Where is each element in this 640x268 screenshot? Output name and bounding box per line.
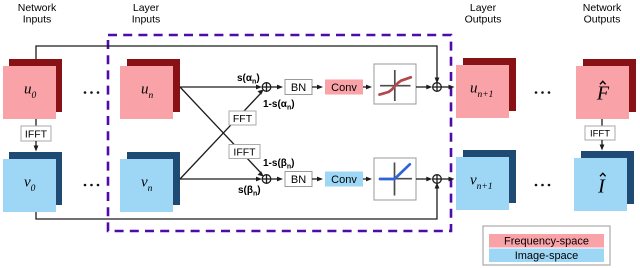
svg-text:s(αn): s(αn) xyxy=(237,73,260,86)
input stack v0 xyxy=(3,152,62,212)
wire u0 to IFFT xyxy=(35,119,37,126)
output stack u_{n+1} xyxy=(456,58,516,118)
svg-text:Conv: Conv xyxy=(331,174,357,186)
IFFT box left xyxy=(21,126,51,141)
activation box bottom xyxy=(374,158,416,200)
wire F hat to IFFT right xyxy=(601,119,603,126)
svg-text:BN: BN xyxy=(291,174,306,186)
input stack vn xyxy=(120,152,180,212)
label s(alpha_n) xyxy=(237,73,260,86)
arrow IFFT to v0 xyxy=(34,141,39,152)
input stack u0 xyxy=(3,59,62,119)
adder A2 xyxy=(262,175,271,184)
svg-text:IFFT: IFFT xyxy=(590,129,610,140)
header: Network Outputs xyxy=(583,2,622,26)
header: Network Inputs xyxy=(18,2,57,26)
layer boundary dashed box xyxy=(108,35,451,231)
legend box xyxy=(483,226,610,265)
arrow A1 to BN1 xyxy=(271,85,283,90)
BN box top xyxy=(285,80,312,95)
svg-text:Network: Network xyxy=(583,2,622,14)
wire vn diagonal through FFT to adder A1 xyxy=(180,90,264,180)
header: Layer Outputs xyxy=(465,2,502,26)
legend image-space swatch xyxy=(489,249,604,263)
arrow A3 to u_{n+1} xyxy=(441,85,454,90)
adder A1 xyxy=(262,83,271,92)
header: Layer Inputs xyxy=(132,2,161,26)
IFFT box right xyxy=(585,126,615,140)
svg-text:IFFT: IFFT xyxy=(25,129,48,141)
input stack un xyxy=(120,59,180,119)
dots between u_{n+1} and F xyxy=(535,91,551,94)
svg-text:Inputs: Inputs xyxy=(132,14,161,26)
adder A4 xyxy=(433,175,442,184)
svg-text:Outputs: Outputs xyxy=(465,14,502,26)
BN box bottom xyxy=(285,172,312,187)
adder A3 xyxy=(433,83,442,92)
arrow IFFT right to I hat xyxy=(600,140,605,151)
arrow activation1 to adder A3 xyxy=(416,85,432,90)
svg-text:I: I xyxy=(597,176,606,198)
label 1-s(alpha_n) xyxy=(263,99,295,112)
svg-text:Network: Network xyxy=(18,2,57,14)
arrow Conv2 to activation2 xyxy=(363,177,372,182)
output stack v_{n+1} xyxy=(456,150,516,210)
dots between v_{n+1} and I xyxy=(535,184,551,187)
label s(beta_n) xyxy=(238,185,261,198)
svg-text:IFFT: IFFT xyxy=(233,147,256,159)
svg-text:FFT: FFT xyxy=(233,113,253,125)
svg-text:Conv: Conv xyxy=(331,82,357,94)
svg-text:1-s(βn): 1-s(βn) xyxy=(263,158,295,171)
svg-text:Layer: Layer xyxy=(470,2,497,14)
wire u0 top residual to right adder xyxy=(36,46,439,84)
activation box top xyxy=(374,64,416,104)
svg-text:BN: BN xyxy=(291,82,306,94)
FFT box xyxy=(229,111,256,125)
arrow A4 to v_{n+1} xyxy=(441,177,454,182)
dots between u0 and un xyxy=(84,91,100,94)
wire vn to adder A2 xyxy=(180,177,262,182)
svg-text:Layer: Layer xyxy=(133,2,160,14)
IFFT box middle xyxy=(229,145,260,159)
svg-text:Outputs: Outputs xyxy=(584,14,621,26)
arrow BN2 path: A2 to BN2 xyxy=(271,177,283,182)
legend frequency-space swatch xyxy=(489,234,604,248)
dots between v0 and vn xyxy=(84,184,100,187)
svg-text:F: F xyxy=(596,83,610,105)
label 1-s(beta_n) xyxy=(263,158,295,171)
arrow BN2 to Conv2 xyxy=(312,177,323,182)
wire un diagonal through IFFT to adder A2 xyxy=(180,87,264,177)
arrow BN1 to Conv1 xyxy=(312,85,323,90)
svg-text:Frequency-space: Frequency-space xyxy=(504,236,589,248)
arrow activation2 to adder A4 xyxy=(416,177,432,182)
Conv box bottom xyxy=(325,172,363,187)
svg-text:Inputs: Inputs xyxy=(23,14,52,26)
arrow Conv1 to activation1 xyxy=(363,85,372,90)
output stack F hat xyxy=(576,59,636,119)
wire un to adder A1 xyxy=(180,85,262,90)
Conv box top xyxy=(325,80,363,95)
svg-text:s(βn): s(βn) xyxy=(238,185,261,198)
svg-text:Image-space: Image-space xyxy=(515,250,579,262)
output stack I hat xyxy=(574,151,634,211)
svg-text:1-s(αn): 1-s(αn) xyxy=(263,99,295,112)
wire v0 bottom residual to right adder xyxy=(36,183,439,220)
